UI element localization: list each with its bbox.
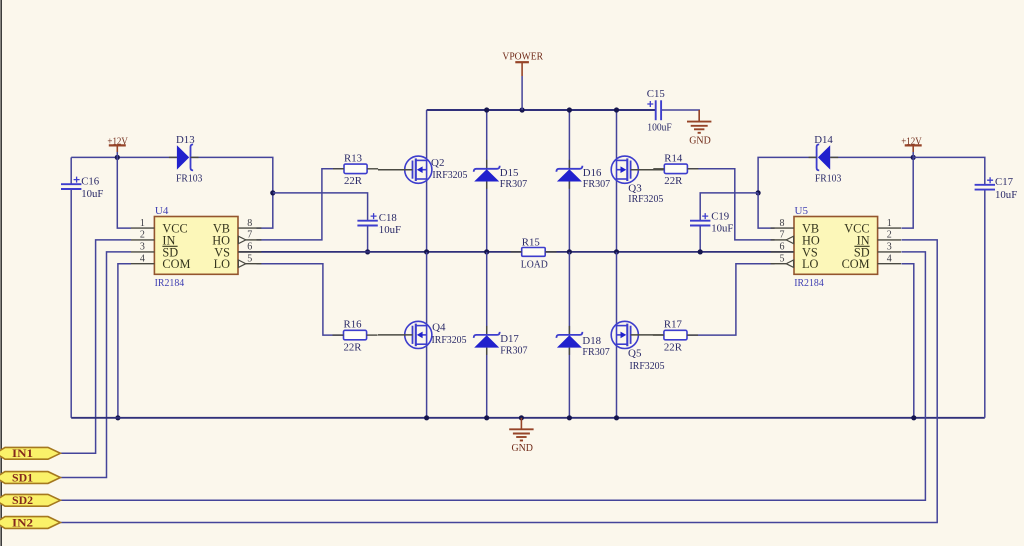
wire Q2 source to mid rail xyxy=(426,179,428,252)
wire VB to C19 top xyxy=(700,193,758,220)
svg-text:R14: R14 xyxy=(664,152,683,164)
wire IN U5 to port IN2 xyxy=(60,240,937,523)
svg-text:C15: C15 xyxy=(647,88,665,100)
svg-text:22R: 22R xyxy=(344,341,363,353)
svg-text:D14: D14 xyxy=(814,134,833,146)
svg-text:10uF: 10uF xyxy=(379,224,401,236)
capacitor C19 xyxy=(690,220,710,222)
svg-text:C19: C19 xyxy=(711,211,729,223)
svg-text:3: 3 xyxy=(140,242,145,253)
diode D13 xyxy=(177,145,189,169)
junction D15 on mid rail xyxy=(484,249,489,254)
junction ground symbol on ground rail xyxy=(519,415,524,420)
wire C19 bottom to VS rail xyxy=(699,226,701,252)
svg-text:10uF: 10uF xyxy=(81,188,103,200)
U5 pin 6 (VS) stub xyxy=(771,251,794,253)
U5 pin 2 (IN) stub xyxy=(878,239,901,241)
wire Q5 drain from mid rail xyxy=(616,252,618,326)
U4 pin 7 (HO) stub xyxy=(246,239,262,241)
transistor Q4 xyxy=(405,321,432,348)
wire C17 column bottom to ground rail xyxy=(984,190,986,417)
svg-text:IR2184: IR2184 xyxy=(155,277,185,289)
port SD1 xyxy=(0,472,60,484)
junction Q5 on ground rail xyxy=(614,415,619,420)
wire C18 bottom to VS rail xyxy=(367,226,369,252)
wire LO U5 down to R17 xyxy=(687,264,774,335)
wire D18 column upper xyxy=(568,252,570,334)
wire COM U4 to ground rail xyxy=(118,264,131,418)
capacitor C18 xyxy=(357,220,377,222)
wire LO U4 down to R16 xyxy=(257,264,344,335)
svg-text:22R: 22R xyxy=(664,341,683,353)
op-amp driver IC U4 IR2184 xyxy=(154,217,238,275)
svg-text:1: 1 xyxy=(887,218,892,229)
capacitor C15 (100uF) xyxy=(655,100,657,120)
svg-text:IRF3205: IRF3205 xyxy=(630,360,665,372)
port SD2 xyxy=(0,494,60,506)
svg-text:22R: 22R xyxy=(664,175,683,187)
U5 pin 5 (LO) stub xyxy=(771,263,787,265)
svg-text:LOAD: LOAD xyxy=(521,259,548,271)
wire IN U4 to port IN1 xyxy=(60,240,131,453)
svg-text:COM: COM xyxy=(842,257,870,271)
wire D15 anode to mid rail xyxy=(486,182,488,252)
U4 pin 6 (VS) stub xyxy=(238,251,261,253)
svg-text:D17: D17 xyxy=(500,333,519,345)
svg-text:10uF: 10uF xyxy=(711,223,733,235)
svg-text:R16: R16 xyxy=(344,319,363,331)
wire C16 column bottom to ground rail xyxy=(70,189,72,418)
junction D15 top rail xyxy=(484,107,489,112)
svg-text:7: 7 xyxy=(780,230,785,241)
svg-text:3: 3 xyxy=(887,242,892,253)
junction Q4 on ground rail xyxy=(424,415,429,420)
wire Q3 drain column xyxy=(616,110,618,161)
resistor R17 xyxy=(664,330,687,340)
wire mid rail VS-LOAD (left half) xyxy=(237,251,522,253)
junction VB right xyxy=(756,190,761,195)
ground GND symbol xyxy=(520,418,522,430)
junction C18 on VS rail xyxy=(365,249,370,254)
capacitor C17 xyxy=(975,184,995,186)
svg-text:C16: C16 xyxy=(81,176,100,188)
svg-text:10uF: 10uF xyxy=(995,189,1017,201)
port IN2 xyxy=(0,517,60,529)
wire COM U5 to ground rail xyxy=(901,264,913,418)
resistor R15 (LOAD) xyxy=(522,248,546,257)
junction +12V right xyxy=(911,155,916,160)
svg-text:Q2: Q2 xyxy=(431,157,444,169)
svg-text:FR307: FR307 xyxy=(500,344,528,356)
wire VCC U5 from +12V xyxy=(901,157,913,228)
wire mid rail VS-LOAD (right half) xyxy=(545,251,794,253)
svg-text:Q5: Q5 xyxy=(628,348,642,360)
transistor Q2 xyxy=(405,156,432,183)
wire VB right vertical to U5 pin 8 xyxy=(758,193,775,228)
svg-text:Q4: Q4 xyxy=(432,322,446,334)
transistor Q5 xyxy=(611,321,638,348)
junction +12V left xyxy=(115,155,120,160)
diode D14 xyxy=(818,145,830,169)
U4 pin 4 (COM) stub xyxy=(131,263,154,265)
junction COM right on ground rail xyxy=(911,415,916,420)
wire VPOWER stem xyxy=(521,76,523,110)
svg-text:GND: GND xyxy=(689,135,711,146)
wire HO U4 up to R13 xyxy=(257,169,345,240)
U4 pin 2 (IN) stub xyxy=(131,239,154,241)
svg-text:COM: COM xyxy=(162,257,190,271)
U5 pin 1 (VCC) stub xyxy=(878,227,901,229)
junction COM left on ground rail xyxy=(115,415,120,420)
top power rail VPOWER xyxy=(427,109,656,111)
wire D14 anode to +12V right xyxy=(830,156,913,158)
svg-text:IRF3205: IRF3205 xyxy=(432,334,467,346)
svg-text:U5: U5 xyxy=(795,205,809,217)
U5 pin 4 (COM) stub xyxy=(878,263,901,265)
junction VPOWER on top rail xyxy=(520,107,525,112)
wire SD U4 to port SD1 xyxy=(60,252,131,478)
wire D16 column upper xyxy=(568,110,570,168)
diode D15 xyxy=(474,166,500,172)
svg-text:LO: LO xyxy=(802,257,819,271)
svg-text:100uF: 100uF xyxy=(647,121,671,133)
svg-text:IRF3205: IRF3205 xyxy=(432,169,467,181)
wire D17 anode to ground rail xyxy=(486,348,488,418)
svg-text:FR307: FR307 xyxy=(582,346,610,358)
junction D16 on mid rail xyxy=(567,249,572,254)
svg-text:4: 4 xyxy=(887,254,892,265)
svg-text:IRF3205: IRF3205 xyxy=(628,193,663,205)
svg-text:D18: D18 xyxy=(582,335,601,347)
wire VCC U4 (from +12V down to pin 1) xyxy=(117,157,131,228)
wire VB to C18 top xyxy=(273,193,368,220)
svg-text:R15: R15 xyxy=(522,237,540,249)
wire D17 column upper xyxy=(486,252,488,334)
wire SD U5 to port SD2 xyxy=(60,252,925,500)
transistor Q3 xyxy=(611,156,638,183)
svg-text:FR307: FR307 xyxy=(583,178,611,190)
wire Q3 source to mid rail xyxy=(616,179,618,252)
U4 pin 1 (VCC) stub xyxy=(131,227,154,229)
resistor R13 xyxy=(344,164,367,174)
capacitor C16 xyxy=(61,183,81,185)
svg-text:SD2: SD2 xyxy=(12,495,33,507)
svg-text:5: 5 xyxy=(780,254,785,265)
U5 pin 3 (SD) stub xyxy=(878,251,901,253)
svg-text:VPOWER: VPOWER xyxy=(502,52,543,63)
ground rail bottom xyxy=(71,417,985,419)
svg-text:6: 6 xyxy=(247,242,252,253)
U5 pin 8 (VB) stub xyxy=(771,227,794,229)
wire D15 column upper xyxy=(486,110,488,168)
svg-text:FR307: FR307 xyxy=(500,178,528,190)
diode D18 xyxy=(556,332,582,338)
svg-text:5: 5 xyxy=(247,254,252,265)
wire Q4 drain from mid rail xyxy=(426,252,428,326)
junction VB left xyxy=(270,190,275,195)
svg-text:C17: C17 xyxy=(995,176,1014,188)
ground GND symbol xyxy=(698,110,700,122)
svg-text:1: 1 xyxy=(140,218,145,229)
svg-text:R17: R17 xyxy=(664,319,683,331)
diode D16 xyxy=(556,166,582,172)
junction Q3 top rail xyxy=(614,107,619,112)
sheet border left edge xyxy=(0,0,2,546)
svg-text:8: 8 xyxy=(780,218,785,229)
wire +12V rail left (C16 top to D13 anode) xyxy=(71,156,177,158)
svg-text:2: 2 xyxy=(887,230,892,241)
wire HO U5 up to R14 xyxy=(688,169,775,240)
svg-text:FR103: FR103 xyxy=(815,173,841,185)
svg-text:6: 6 xyxy=(780,242,785,253)
svg-text:IR2184: IR2184 xyxy=(794,277,824,289)
svg-text:GND: GND xyxy=(511,443,533,454)
junction D18 on ground rail xyxy=(567,415,572,420)
resistor R16 xyxy=(344,330,367,340)
junction D17 on ground rail xyxy=(484,415,489,420)
svg-text:7: 7 xyxy=(247,230,252,241)
svg-text:FR103: FR103 xyxy=(176,173,202,185)
svg-text:IN2: IN2 xyxy=(12,517,33,529)
U4 pin 3 (SD) stub xyxy=(131,251,154,253)
wire D13 cathode to VB corner xyxy=(191,157,273,193)
wire D16 anode to mid rail xyxy=(568,182,570,252)
junction D16 top rail xyxy=(567,107,572,112)
svg-text:8: 8 xyxy=(247,218,252,229)
op-amp driver IC U5 IR2184 xyxy=(794,217,878,275)
svg-text:SD1: SD1 xyxy=(12,472,33,484)
svg-text:LO: LO xyxy=(214,257,231,271)
svg-text:D13: D13 xyxy=(176,134,195,146)
junction Q3 source on mid rail xyxy=(614,249,619,254)
svg-text:R13: R13 xyxy=(344,152,362,164)
node VB left vertical xyxy=(257,193,273,228)
U4 pin 5 (LO) stub xyxy=(246,263,262,265)
U4 pin 8 (VB) stub xyxy=(238,227,261,229)
wire C15 right plate to ground symbol xyxy=(661,110,699,121)
wire C16 column top xyxy=(70,157,72,184)
svg-text:22R: 22R xyxy=(344,175,363,187)
port IN1 xyxy=(0,447,60,459)
svg-text:4: 4 xyxy=(140,254,145,265)
wire Q5 source to ground rail xyxy=(616,344,618,418)
wire D18 anode to ground rail xyxy=(568,348,570,418)
wire Q2 drain column xyxy=(426,110,428,161)
resistor R14 xyxy=(664,164,687,174)
junction Q2 source on mid rail xyxy=(424,249,429,254)
svg-text:2: 2 xyxy=(140,230,145,241)
junction C19 on VS rail xyxy=(698,249,703,254)
svg-text:C18: C18 xyxy=(379,212,397,224)
wire D14 cathode to VB right corner xyxy=(758,157,816,193)
U5 pin 7 (HO) stub xyxy=(771,239,787,241)
svg-text:IN1: IN1 xyxy=(12,448,33,460)
wire Q4 source to ground rail xyxy=(426,344,428,418)
diode D17 xyxy=(474,332,500,338)
svg-text:U4: U4 xyxy=(155,205,169,217)
wire +12V right to C17 column xyxy=(913,157,985,184)
